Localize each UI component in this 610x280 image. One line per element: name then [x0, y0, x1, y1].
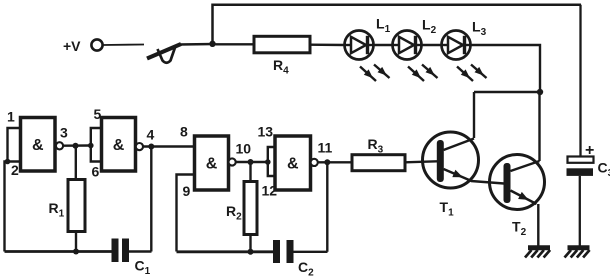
light arrows L2	[408, 65, 438, 82]
LED L3	[442, 31, 471, 60]
wire bottom rail osc2	[177, 250, 274, 253]
capacitor C1	[112, 239, 130, 263]
LED L1	[345, 31, 374, 60]
svg-text:8: 8	[180, 124, 188, 140]
svg-text:&: &	[287, 156, 299, 173]
node gate2 input	[88, 143, 94, 149]
transistor T1	[423, 132, 479, 188]
wire 10 to gate4	[236, 161, 268, 163]
node supply junction	[209, 41, 215, 47]
svg-text:10: 10	[236, 141, 252, 157]
svg-text:&: &	[113, 137, 125, 154]
svg-text:2: 2	[11, 162, 19, 178]
input bracket U1b	[91, 128, 102, 162]
resistor R1	[68, 180, 85, 232]
svg-text:11: 11	[318, 140, 333, 156]
node R1 top	[73, 143, 79, 149]
wire feedback to node 11	[326, 162, 328, 252]
wire bottom rail osc1	[5, 250, 112, 253]
input bracket U1a	[8, 128, 21, 162]
light arrows L1	[360, 65, 390, 82]
wire R1 to rail	[75, 232, 77, 252]
wire R2 to rail	[249, 235, 251, 253]
NAND gate U1c	[195, 136, 229, 190]
wire L2 to L3	[422, 44, 442, 46]
svg-text:+: +	[585, 142, 594, 159]
svg-text:6: 6	[92, 164, 100, 180]
wire left feedback rail	[5, 162, 8, 252]
wire 3 to gate2 inputs	[63, 144, 91, 147]
pin bubble output 11	[311, 159, 318, 166]
wire T2 emitter to ground	[537, 204, 539, 246]
svg-text:4: 4	[147, 127, 155, 143]
svg-text:13: 13	[258, 124, 274, 140]
pin bubble output 10	[229, 158, 236, 165]
wire 11 to R3	[318, 161, 352, 163]
wire R1 riser	[75, 146, 77, 180]
node C2 feedback tap	[324, 159, 330, 165]
wire +V to switch	[103, 44, 144, 47]
node collectors junction	[537, 89, 543, 95]
wire switch to node	[179, 43, 214, 46]
NAND gate U1a	[21, 118, 56, 172]
pin bubble output 3	[56, 142, 63, 149]
node gate4 input	[265, 159, 271, 165]
node R1 bottom	[73, 249, 79, 255]
wire T1 collector riser	[473, 92, 475, 138]
capacitor C3	[567, 157, 594, 176]
light arrows L3	[457, 65, 487, 82]
input bracket U1d	[268, 147, 275, 176]
NAND gate U1d	[275, 136, 311, 190]
wire T2 collector riser	[538, 92, 540, 161]
pin bubble output 4	[136, 143, 143, 150]
capacitor C2	[273, 240, 294, 263]
svg-text:3: 3	[60, 125, 68, 141]
wire T1 emitter to T2 base	[471, 181, 504, 184]
node R2 top	[248, 159, 254, 165]
wire feedback to node 4	[150, 147, 152, 252]
ground (T2 emitter)	[525, 248, 550, 258]
wire input 9	[177, 175, 195, 252]
wire R4 to L1	[310, 44, 345, 47]
NAND gate U1b	[102, 118, 136, 172]
wire C1 to feedback	[129, 250, 152, 252]
svg-text:9: 9	[183, 183, 191, 199]
node gate1 input	[5, 159, 11, 165]
svg-text:+V: +V	[63, 38, 81, 54]
wire node to R4	[213, 43, 255, 45]
node R2 bottom	[248, 249, 254, 255]
transistor T2	[490, 155, 545, 210]
wire 4 to gate3	[143, 145, 194, 147]
LED L2	[393, 31, 422, 60]
wire R2 riser	[249, 162, 251, 182]
wire C3 to ground	[579, 176, 581, 246]
wire top rail	[213, 5, 582, 44]
wire to C3 top	[579, 5, 581, 157]
wire R3 to T1 base	[405, 161, 437, 162]
switch S1	[147, 44, 181, 63]
svg-text:1: 1	[7, 109, 15, 125]
wire collectors tie	[474, 91, 540, 93]
svg-text:&: &	[206, 156, 218, 173]
wire C2 to feedback	[294, 251, 328, 253]
resistor R2	[244, 182, 257, 235]
wire L3 to collector riser	[471, 45, 541, 92]
terminal +V	[91, 39, 102, 50]
resistor R4	[254, 36, 310, 53]
ground (C3)	[565, 248, 590, 258]
svg-text:&: &	[32, 137, 44, 154]
node C1 feedback tap	[148, 144, 154, 150]
wire L1 to L2	[374, 44, 393, 46]
resistor R3	[352, 155, 405, 171]
